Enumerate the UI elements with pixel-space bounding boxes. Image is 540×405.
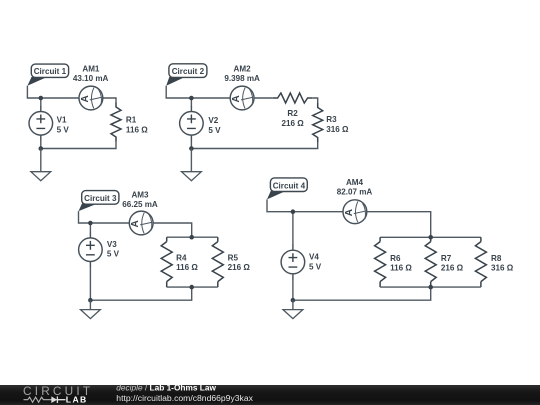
svg-text:R6: R6 [390, 254, 401, 263]
ground: circuit 1 [40, 149, 42, 172]
wire: circuit 2 bottom rail from R3 bottom to V2 bottom node [191, 142, 317, 149]
svg-text:R8: R8 [491, 254, 502, 263]
wire: R7 stubs [430, 237, 432, 287]
svg-text:R5: R5 [228, 254, 239, 263]
wire: V4 bottom stub [292, 274, 294, 280]
node: V3 top junction [88, 221, 93, 226]
wire: circuit 4 top rail from label corner through AM4 to parallel network [267, 199, 431, 237]
wire: V2 top stub [190, 98, 192, 107]
svg-text:316 Ω: 316 Ω [326, 125, 349, 134]
wire: parallel network bottom rail [167, 286, 218, 288]
ammeter AM1 [79, 86, 103, 110]
svg-text:116 Ω: 116 Ω [126, 125, 148, 134]
wire: R4 stubs [166, 237, 168, 287]
svg-text:216 Ω: 216 Ω [228, 263, 251, 272]
svg-text:http://circuitlab.com/c8nd66p9: http://circuitlab.com/c8nd66p9y3kax [116, 393, 253, 403]
node: V3 bottom junction [88, 298, 93, 303]
resistor R5 [212, 242, 223, 282]
svg-text:5 V: 5 V [208, 126, 221, 135]
resistor R1 [111, 103, 121, 142]
svg-text:43.10 mA: 43.10 mA [73, 74, 109, 83]
svg-text:A: A [80, 95, 91, 102]
svg-text:V4: V4 [309, 253, 319, 262]
svg-text:116 Ω: 116 Ω [176, 263, 198, 272]
svg-text:R4: R4 [176, 254, 187, 263]
voltage source V2 [180, 112, 204, 136]
ground: circuit 2 [190, 149, 192, 172]
svg-text:5 V: 5 V [57, 126, 70, 135]
node: network bottom junction (R7 bottom) [428, 285, 433, 290]
svg-text:A: A [231, 95, 242, 102]
svg-text:5 V: 5 V [309, 263, 322, 272]
ammeter AM4 [343, 200, 367, 224]
svg-text:R1: R1 [126, 115, 137, 124]
wire: R2 right stub to R3 top [312, 98, 318, 103]
node: V2 bottom junction [189, 146, 194, 151]
node: V4 top junction [291, 209, 296, 214]
node: network bottom junction [189, 285, 194, 290]
svg-text:R3: R3 [326, 115, 337, 124]
logo: diode triangle [51, 396, 57, 403]
wire: R6 stubs [379, 237, 381, 287]
voltage source V3 [79, 238, 103, 262]
wire: V2 bottom stub [190, 135, 192, 140]
wire: network bottom to V4 bottom node [293, 287, 431, 300]
label flag: Circuit 4 [267, 191, 286, 200]
svg-text:66.25 mA: 66.25 mA [122, 200, 158, 209]
ammeter AM3 [129, 211, 153, 235]
svg-text:A: A [130, 220, 141, 227]
node: V1 top junction [39, 96, 44, 101]
svg-text:9.398 mA: 9.398 mA [224, 74, 260, 83]
wire: parallel network top rail [380, 236, 481, 238]
resistor R3 [313, 103, 323, 142]
wire: V3 top stub [89, 223, 91, 233]
svg-text:V1: V1 [57, 116, 67, 125]
wire: circuit 1 top rail from label corner through AM1 to R1 top [27, 86, 116, 103]
svg-text:deciple / Lab 1-Ohms Law: deciple / Lab 1-Ohms Law [116, 383, 216, 393]
resistor R4 [161, 242, 172, 282]
voltage source V4 [281, 250, 305, 274]
wire: R5 stubs [217, 237, 219, 287]
svg-text:Circuit 3: Circuit 3 [84, 194, 117, 203]
resistor R2 [273, 93, 312, 103]
svg-text:Circuit 2: Circuit 2 [172, 67, 205, 76]
resistor R8 [475, 242, 486, 282]
svg-text:V3: V3 [107, 240, 117, 249]
ground: circuit 4 [292, 300, 294, 309]
svg-text:116 Ω: 116 Ω [390, 263, 412, 272]
wire: parallel network bottom rail [380, 286, 481, 288]
svg-text:Circuit 4: Circuit 4 [273, 181, 306, 190]
svg-text:R7: R7 [441, 254, 452, 263]
wire: circuit 2 top rail from label corner through AM2 to R2 [166, 86, 273, 98]
svg-text:AM3: AM3 [131, 191, 149, 200]
wire: V3 bottom stub [89, 261, 91, 267]
wire: V4 top stub [292, 212, 294, 245]
svg-text:216 Ω: 216 Ω [281, 119, 304, 128]
svg-text:82.07 mA: 82.07 mA [337, 187, 373, 196]
node: V4 bottom junction [291, 298, 296, 303]
logo: diode cathode bar [57, 396, 65, 403]
svg-text:LAB: LAB [66, 394, 88, 404]
node: V2 top junction [189, 96, 194, 101]
logo: resistor-diode symbol [24, 397, 59, 402]
node: V1 bottom junction [39, 146, 44, 151]
svg-text:A: A [344, 209, 355, 216]
label flag: Circuit 3 [79, 204, 98, 212]
svg-text:Circuit 1: Circuit 1 [34, 67, 67, 76]
node: network top junction (R7 top) [428, 235, 433, 240]
svg-text:AM1: AM1 [82, 65, 100, 74]
resistor R6 [375, 242, 386, 282]
svg-text:5 V: 5 V [107, 250, 120, 259]
ground: circuit 3 [89, 300, 91, 309]
svg-text:216 Ω: 216 Ω [441, 263, 464, 272]
wire: circuit 1 bottom rail from R1 bottom to V1 bottom node [41, 142, 116, 149]
label flag: Circuit 1 [27, 77, 47, 86]
voltage source V1 [29, 112, 53, 136]
wire: R8 stubs [480, 237, 482, 287]
svg-text:316 Ω: 316 Ω [491, 263, 514, 272]
ammeter AM2 [230, 86, 254, 110]
resistor R7 [425, 242, 436, 282]
label flag: Circuit 2 [166, 77, 185, 86]
svg-text:AM2: AM2 [234, 65, 252, 74]
wire: circuit 3 top rail from label corner through AM3 to parallel network [79, 211, 192, 237]
svg-text:R2: R2 [287, 109, 298, 118]
wire: network bottom to V3 bottom node [90, 287, 191, 300]
wire: V1 top stub [40, 98, 42, 107]
svg-text:AM4: AM4 [346, 178, 364, 187]
svg-text:V2: V2 [208, 116, 218, 125]
node: network top junction [189, 235, 194, 240]
wire: parallel network top rail [167, 236, 218, 238]
wire: V1 bottom stub [40, 135, 42, 140]
